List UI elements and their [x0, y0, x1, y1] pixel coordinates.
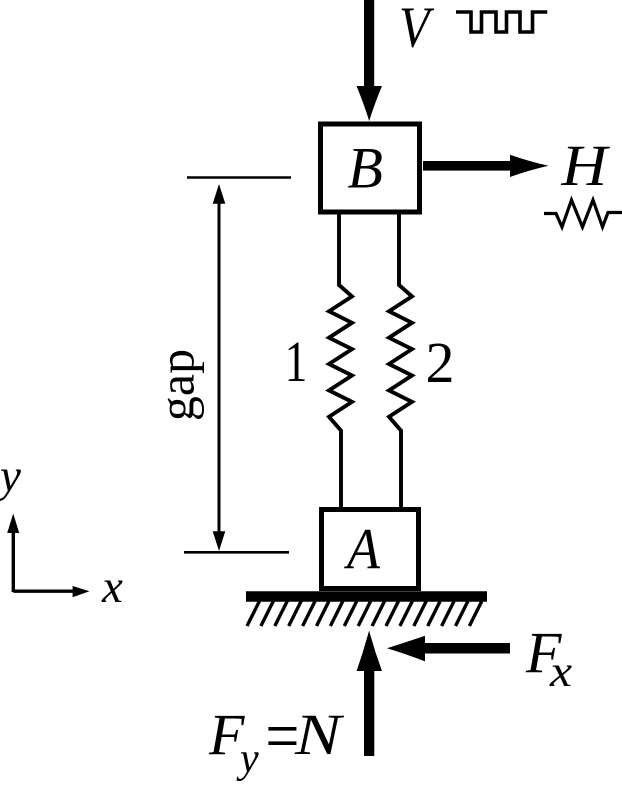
svg-text:1: 1: [285, 331, 308, 395]
svg-text:gap: gap: [149, 349, 205, 421]
svg-text:B: B: [348, 136, 383, 201]
svg-text:A: A: [343, 518, 381, 582]
svg-text:2: 2: [426, 330, 455, 395]
svg-text:y: y: [236, 736, 259, 782]
svg-text:N: N: [294, 702, 345, 767]
svg-text:x: x: [549, 648, 572, 697]
svg-text:y: y: [0, 450, 21, 502]
svg-text:H: H: [560, 134, 610, 198]
svg-text:x: x: [101, 561, 123, 613]
